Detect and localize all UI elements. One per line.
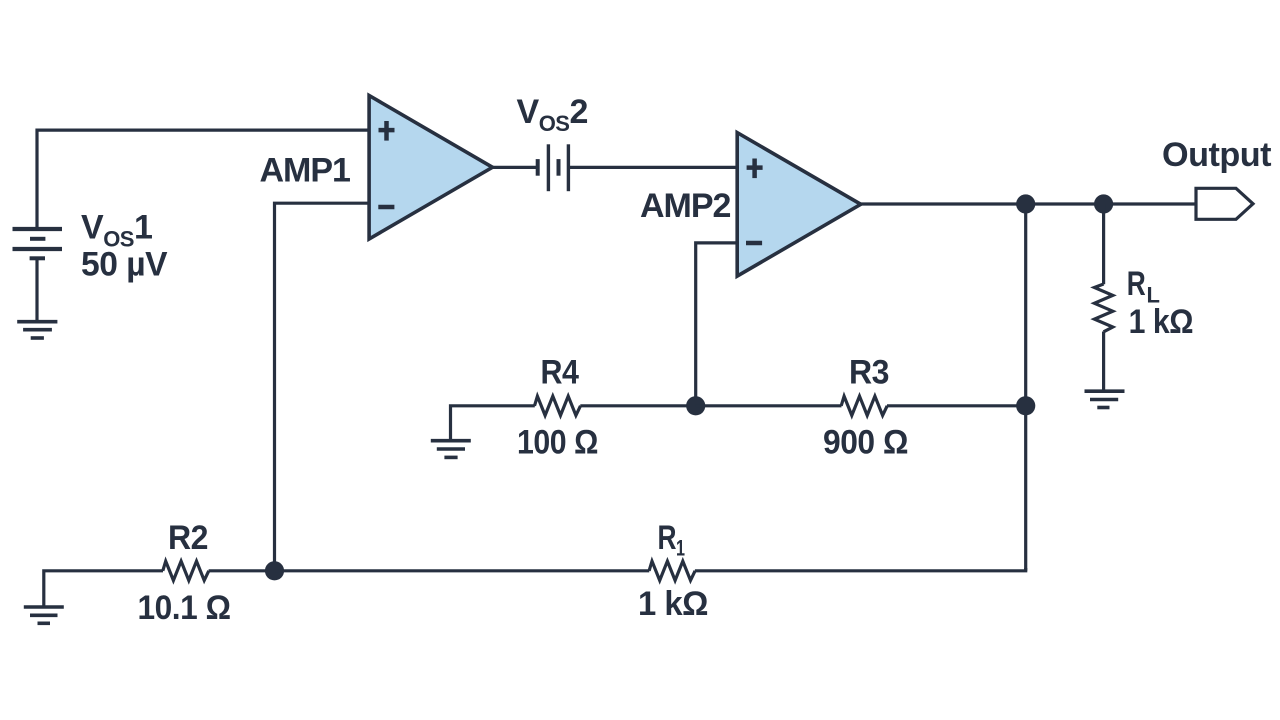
wire bottom left ground stub [44,571,163,607]
resistor R4 zigzag [535,396,581,415]
node A output rail top [1016,194,1035,213]
wire top from Vos1 to AMP1 + input [37,130,370,228]
wire AMP1 inverting input to bottom node [275,203,371,571]
wire output node down right rail [1024,204,1027,571]
resistor R1 zigzag [649,561,695,580]
node B load tap [1094,194,1113,213]
svg-text:50 µV: 50 µV [81,246,168,284]
svg-text:R3: R3 [849,354,889,392]
AMP1 plus sign [379,121,395,141]
svg-text:R: R [658,519,677,557]
node bottom junction [265,561,284,580]
wire R4 ground stub [451,406,535,441]
battery VOS2 plate tall right [567,144,570,191]
wire RL to ground [1102,332,1105,392]
battery VOS1 plate short [30,237,45,241]
battery VOS1 plate long top [13,227,63,231]
wire AMP2 inverting input to R4/R3 node [696,243,738,406]
AMP1 minus sign [378,205,394,209]
op-amp AMP2 [737,133,861,277]
battery VOS2 plate short right [557,159,561,176]
ground below RL [1085,391,1125,407]
node feedback junction [686,396,705,415]
node C right rail mid [1016,396,1035,415]
wire AMP2 output to output connector [860,202,1197,205]
battery VOS1 plate long bottom [13,247,63,251]
svg-text:R2: R2 [168,519,208,557]
svg-text:R: R [1127,265,1146,303]
svg-text:R4: R4 [541,354,580,392]
svg-text:1 kΩ: 1 kΩ [1129,303,1194,341]
wire AMP1 output to VOS2 [491,166,538,169]
output connector pentagon [1196,188,1253,219]
wire R2 to bottom node [209,569,275,572]
svg-text:900 Ω: 900 Ω [823,424,908,462]
svg-text:AMP1: AMP1 [260,152,351,190]
battery VOS2 plate tall left [547,144,550,191]
svg-text:Output: Output [1162,136,1271,174]
op-amp AMP1 [369,96,492,240]
wire node to R3 [696,404,842,407]
ground below VOS1 [17,322,57,338]
AMP2 plus sign [747,159,763,179]
svg-text:1: 1 [676,536,685,561]
wire R3 to right rail [887,404,1026,407]
svg-text:1 kΩ: 1 kΩ [638,585,708,623]
svg-text:100 Ω: 100 Ω [517,424,598,462]
wire R4 to node [580,404,695,407]
resistor R3 zigzag [841,396,887,415]
svg-text:VOS2: VOS2 [517,93,588,136]
AMP2 minus sign [746,241,762,245]
wire node B down to RL [1102,204,1105,284]
resistor R2 zigzag [163,561,209,580]
svg-text:AMP2: AMP2 [640,187,731,225]
svg-text:10.1 Ω: 10.1 Ω [138,589,231,627]
resistor RL zigzag [1094,284,1112,332]
wire VOS2 to AMP2 + input [568,166,738,169]
ground left of R4 [431,441,471,458]
wire R1 to right rail corner [695,568,1026,571]
battery VOS1 plate short bottom [30,256,45,260]
battery VOS2 plate short left [536,159,540,176]
ground bottom left [24,607,64,623]
wire bottom node to R1 [275,569,650,572]
wire VOS1 to ground [35,258,38,321]
